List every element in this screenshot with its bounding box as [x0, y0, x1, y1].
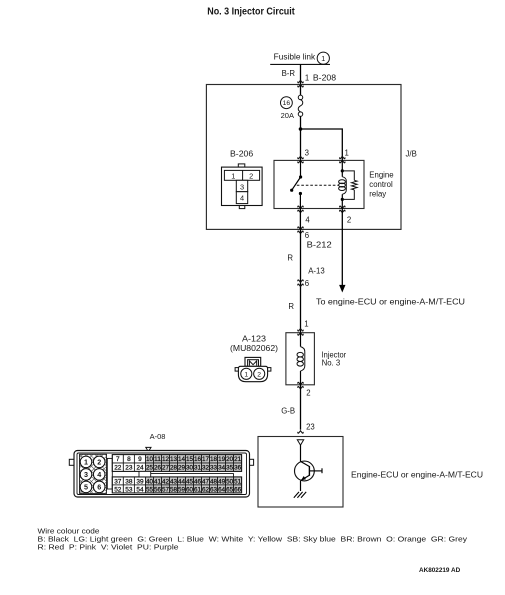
connector junction injector pin 1 — [298, 329, 303, 336]
svg-text:43: 43 — [170, 478, 178, 485]
svg-text:59: 59 — [178, 486, 186, 493]
svg-text:52: 52 — [114, 486, 122, 493]
A-08 index triangle — [146, 447, 151, 451]
svg-text:3: 3 — [305, 148, 309, 157]
svg-text:G-B: G-B — [281, 407, 295, 416]
svg-text:B-212: B-212 — [307, 241, 332, 250]
svg-text:40: 40 — [146, 478, 154, 485]
svg-text:2: 2 — [97, 458, 101, 467]
svg-text:16: 16 — [283, 100, 291, 107]
A-08 centre key notch — [139, 471, 151, 477]
A-08 right side tab — [250, 459, 254, 465]
svg-text:47: 47 — [202, 478, 210, 485]
wire: relay pin 2 down through J/B — [341, 209, 343, 286]
svg-text:control: control — [369, 180, 393, 189]
wire: injector to ECU, G-B — [300, 385, 302, 430]
svg-text:2: 2 — [347, 216, 351, 225]
injector coil — [297, 333, 305, 385]
wire: triangle to transistor — [300, 445, 302, 461]
svg-text:23: 23 — [125, 465, 133, 472]
svg-text:B-208: B-208 — [313, 74, 336, 83]
svg-text:23: 23 — [306, 423, 315, 432]
svg-text:6: 6 — [305, 231, 309, 240]
svg-text:13: 13 — [170, 456, 178, 463]
A-08 pin strip 37-66 — [112, 477, 123, 485]
connector B-206 drawing — [222, 164, 263, 209]
svg-text:36: 36 — [234, 465, 242, 472]
svg-text:29: 29 — [178, 465, 186, 472]
fuse number circle 16 — [281, 97, 293, 109]
engine control relay box — [274, 160, 364, 208]
svg-text:55: 55 — [146, 486, 154, 493]
svg-text:12: 12 — [162, 456, 170, 463]
A-08 pin 6 — [93, 481, 105, 493]
wire: junction down to relay switch (pin 3) — [300, 129, 302, 160]
svg-text:2: 2 — [257, 371, 261, 378]
svg-text:42: 42 — [162, 478, 170, 485]
svg-text:No. 3 Injector Circuit: No. 3 Injector Circuit — [207, 7, 295, 18]
svg-text:45: 45 — [186, 478, 194, 485]
relay coil — [339, 160, 347, 208]
svg-text:15: 15 — [186, 456, 194, 463]
svg-text:6: 6 — [305, 279, 309, 288]
transistor Q (output driver) — [295, 461, 323, 481]
relay switch contact — [290, 160, 302, 208]
svg-text:57: 57 — [162, 486, 170, 493]
wire: transistor emitter to ground — [300, 481, 302, 491]
engine ECU box — [258, 437, 343, 508]
svg-text:A-08: A-08 — [150, 432, 166, 441]
svg-text:16: 16 — [194, 456, 202, 463]
svg-text:relay: relay — [369, 189, 386, 198]
A-08 pin 1 — [80, 456, 92, 468]
svg-text:14: 14 — [178, 456, 186, 463]
wire: J/B bottom to injector — [300, 229, 302, 332]
A-08 pin 4 — [93, 469, 105, 481]
svg-text:J/B: J/B — [406, 150, 417, 159]
A-08 left bracket between strips — [107, 458, 112, 489]
svg-text:No. 3: No. 3 — [322, 358, 341, 367]
svg-text:48: 48 — [210, 478, 218, 485]
svg-text:19: 19 — [218, 456, 226, 463]
connector A-123 drawing — [235, 357, 271, 381]
svg-text:To engine-ECU or engine-A-M/T-: To engine-ECU or engine-A-M/T-ECU — [316, 297, 465, 306]
svg-text:1: 1 — [321, 54, 325, 63]
svg-text:(MU802062): (MU802062) — [230, 344, 278, 353]
svg-text:51: 51 — [234, 478, 242, 485]
svg-text:33: 33 — [210, 465, 218, 472]
svg-text:24: 24 — [136, 465, 144, 472]
svg-text:1: 1 — [304, 319, 308, 328]
svg-text:B-206: B-206 — [230, 150, 253, 159]
connector junction relay pin 2 — [340, 206, 345, 213]
svg-text:10: 10 — [146, 456, 154, 463]
connector junction relay pin 4 — [298, 206, 303, 213]
svg-text:R: R — [288, 302, 294, 311]
connector junction relay pin 1 — [340, 156, 345, 163]
svg-text:34: 34 — [218, 465, 226, 472]
svg-text:22: 22 — [114, 465, 122, 472]
svg-text:64: 64 — [218, 486, 226, 493]
ground symbol — [294, 492, 306, 498]
svg-text:35: 35 — [226, 465, 234, 472]
svg-text:R: Red P: Pink V: Violet PU: R: Red P: Pink V: Violet PU: Purple — [38, 545, 179, 552]
connector junction injector pin 2 — [298, 382, 303, 389]
svg-text:B: Black LG: Light green G:: B: Black LG: Light green G: Green L: Blu… — [38, 537, 468, 544]
A-08 outer shell — [74, 451, 250, 498]
connector junction A-13 on wire — [298, 280, 303, 287]
svg-text:A-123: A-123 — [242, 335, 266, 344]
svg-text:4: 4 — [240, 194, 244, 203]
wire: fusible link to J/B, B-R — [300, 64, 302, 95]
svg-text:20A: 20A — [281, 111, 294, 120]
junction node dot — [299, 127, 303, 131]
A-08 pin 3 — [80, 469, 92, 481]
svg-text:54: 54 — [136, 486, 144, 493]
connector junction at ECU (terminal 23) — [298, 431, 303, 433]
svg-text:R: R — [287, 254, 293, 263]
connector junction at J/B top (B-208) — [298, 80, 303, 87]
svg-text:25: 25 — [146, 465, 154, 472]
svg-text:28: 28 — [170, 465, 178, 472]
svg-text:49: 49 — [218, 478, 226, 485]
svg-text:1: 1 — [244, 371, 248, 378]
svg-text:58: 58 — [170, 486, 178, 493]
wire: relay pin 4 to J/B bottom — [299, 209, 301, 230]
svg-text:6: 6 — [97, 483, 101, 492]
svg-text:37: 37 — [114, 478, 122, 485]
svg-text:Engine: Engine — [369, 170, 393, 179]
svg-text:AK802219 AD: AK802219 AD — [419, 567, 460, 574]
svg-text:Engine-ECU or engine-A-M/T-ECU: Engine-ECU or engine-A-M/T-ECU — [351, 470, 483, 479]
A-08 pin strip 7-36 — [112, 455, 123, 463]
svg-text:50: 50 — [226, 478, 234, 485]
svg-text:3: 3 — [240, 182, 244, 191]
svg-text:17: 17 — [202, 456, 210, 463]
svg-text:31: 31 — [194, 465, 202, 472]
A-08 power pin block (pins 1-6) — [80, 454, 107, 493]
A-08 left side tab — [69, 459, 74, 465]
svg-text:4: 4 — [305, 216, 310, 225]
svg-text:63: 63 — [210, 486, 218, 493]
svg-text:1: 1 — [84, 458, 88, 467]
svg-text:B-R: B-R — [282, 69, 296, 78]
injector No. 3 box — [286, 333, 315, 385]
svg-text:46: 46 — [194, 478, 202, 485]
svg-text:32: 32 — [202, 465, 210, 472]
junction block J/B box — [206, 85, 401, 230]
svg-text:38: 38 — [125, 478, 133, 485]
arrow to engine ECU branch — [339, 285, 345, 293]
fusible link number circle 1 — [317, 52, 329, 64]
A-08 pin 5 — [80, 481, 92, 493]
svg-text:20: 20 — [226, 456, 234, 463]
svg-text:60: 60 — [186, 486, 194, 493]
svg-text:1: 1 — [305, 74, 309, 83]
svg-text:56: 56 — [154, 486, 162, 493]
svg-text:30: 30 — [186, 465, 194, 472]
svg-text:11: 11 — [154, 456, 162, 463]
svg-text:27: 27 — [162, 465, 170, 472]
svg-text:21: 21 — [234, 456, 242, 463]
svg-text:53: 53 — [125, 486, 133, 493]
svg-text:18: 18 — [210, 456, 218, 463]
connector junction relay pin 3 — [298, 156, 303, 163]
svg-text:41: 41 — [154, 478, 162, 485]
svg-text:Wire colour code: Wire colour code — [38, 529, 100, 536]
svg-text:1: 1 — [231, 172, 235, 181]
ECU input triangle — [297, 440, 303, 445]
relay suppression resistor — [342, 171, 357, 200]
svg-text:66: 66 — [234, 486, 242, 493]
svg-text:26: 26 — [154, 465, 162, 472]
fusible link underline — [270, 63, 330, 65]
connector A-08 drawing — [8, 451, 254, 498]
svg-text:5: 5 — [84, 483, 88, 492]
relay actuation dashed link — [297, 184, 339, 186]
svg-text:7: 7 — [116, 456, 120, 463]
svg-text:1: 1 — [345, 148, 349, 157]
wire: fuse to junction — [300, 116, 302, 129]
svg-text:2: 2 — [306, 389, 310, 398]
A-08 inner shell — [77, 453, 247, 495]
svg-text:62: 62 — [202, 486, 210, 493]
svg-text:A-13: A-13 — [308, 267, 324, 276]
svg-text:3: 3 — [84, 470, 88, 479]
svg-text:44: 44 — [178, 478, 186, 485]
svg-text:9: 9 — [138, 456, 142, 463]
svg-text:8: 8 — [127, 456, 131, 463]
svg-text:Fusible link: Fusible link — [274, 53, 317, 62]
svg-text:4: 4 — [97, 470, 101, 479]
wire: branch junction right and down to relay coil (pin 1) — [301, 129, 343, 160]
svg-text:61: 61 — [194, 486, 202, 493]
connector junction B-212 at J/B bottom — [298, 227, 303, 234]
A-08 centre beam — [151, 472, 234, 474]
svg-text:65: 65 — [226, 486, 234, 493]
svg-text:2: 2 — [249, 172, 253, 181]
svg-text:39: 39 — [136, 478, 144, 485]
fuse 16 20A symbol — [298, 95, 303, 116]
A-08 pin 2 — [93, 456, 105, 468]
